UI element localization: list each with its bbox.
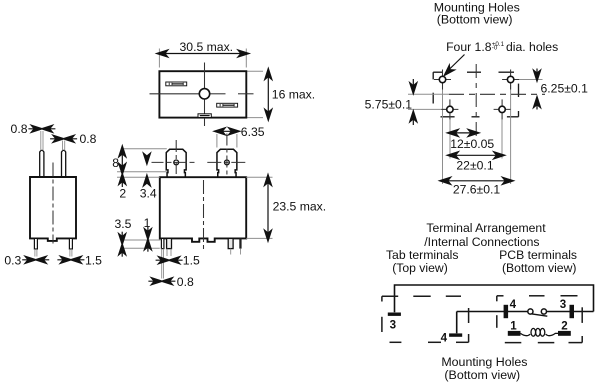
svg-text:/Internal Connections: /Internal Connections (424, 235, 539, 249)
svg-text:(Top view): (Top view) (392, 261, 448, 275)
svg-text:1.5: 1.5 (183, 254, 200, 268)
svg-text:(Bottom view): (Bottom view) (437, 13, 513, 27)
svg-text:(Bottom view): (Bottom view) (444, 368, 520, 382)
svg-text:0.8: 0.8 (11, 122, 28, 136)
svg-text:6.35: 6.35 (241, 125, 265, 139)
svg-text:4: 4 (441, 332, 448, 345)
svg-text:(Bottom view): (Bottom view) (502, 261, 577, 275)
svg-text:Four 1.8: Four 1.8 (446, 40, 492, 54)
svg-text:1: 1 (144, 216, 151, 230)
svg-text:0.8: 0.8 (80, 132, 97, 146)
svg-text:3: 3 (560, 298, 567, 311)
svg-text:dia. holes: dia. holes (506, 40, 558, 54)
svg-text:27.6±0.1: 27.6±0.1 (453, 183, 501, 197)
svg-text:12±0.05: 12±0.05 (450, 137, 494, 151)
svg-text:22±0.1: 22±0.1 (456, 159, 493, 173)
svg-text:0.3: 0.3 (4, 254, 21, 268)
svg-text:0.8: 0.8 (177, 275, 194, 289)
svg-text:1.5: 1.5 (85, 254, 102, 268)
svg-text:2: 2 (561, 320, 567, 333)
svg-text:2: 2 (119, 186, 126, 200)
svg-text:5.75±0.1: 5.75±0.1 (365, 97, 413, 111)
svg-text:30.5 max.: 30.5 max. (180, 40, 234, 54)
svg-text:8: 8 (112, 156, 119, 170)
svg-text:3: 3 (390, 319, 397, 332)
svg-text:16 max.: 16 max. (272, 88, 315, 102)
svg-text:3.4: 3.4 (140, 186, 157, 200)
svg-text:Terminal Arrangement: Terminal Arrangement (426, 221, 546, 235)
svg-text:6.25±0.1: 6.25±0.1 (541, 82, 589, 96)
svg-text:PCB terminals: PCB terminals (499, 248, 577, 262)
svg-text:-0: -0 (492, 45, 498, 52)
svg-text:3.5: 3.5 (115, 217, 132, 231)
svg-text:Tab terminals: Tab terminals (386, 248, 458, 262)
svg-text:4: 4 (510, 298, 517, 311)
svg-text:1: 1 (510, 320, 517, 333)
svg-text:23.5 max.: 23.5 max. (273, 199, 327, 213)
